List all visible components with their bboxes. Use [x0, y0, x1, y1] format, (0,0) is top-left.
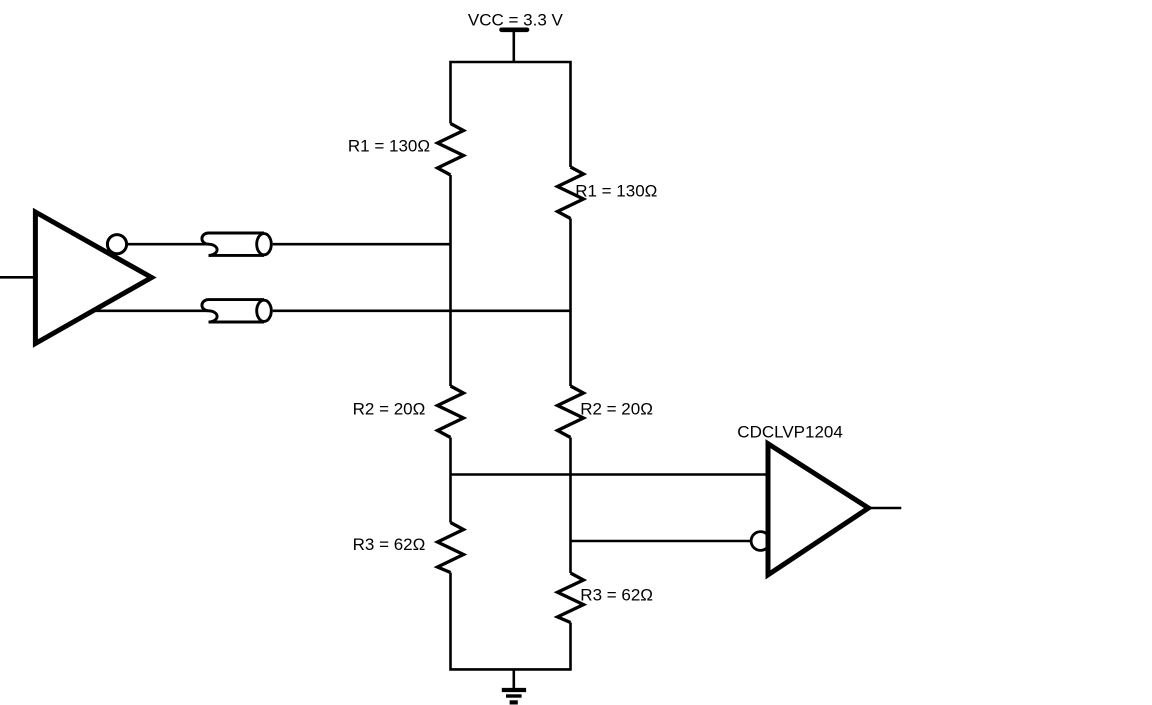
svg-text:VCC = 3.3 V: VCC = 3.3 V: [468, 11, 564, 30]
svg-text:R2 = 20Ω: R2 = 20Ω: [353, 400, 426, 419]
svg-text:CDCLVP1204: CDCLVP1204: [737, 422, 843, 441]
svg-text:R3 = 62Ω: R3 = 62Ω: [353, 535, 426, 554]
svg-text:R1 = 130Ω: R1 = 130Ω: [575, 182, 657, 201]
svg-text:R1 = 130Ω: R1 = 130Ω: [348, 137, 430, 156]
svg-text:R2 = 20Ω: R2 = 20Ω: [580, 400, 653, 419]
svg-text:R3 = 62Ω: R3 = 62Ω: [580, 585, 653, 604]
